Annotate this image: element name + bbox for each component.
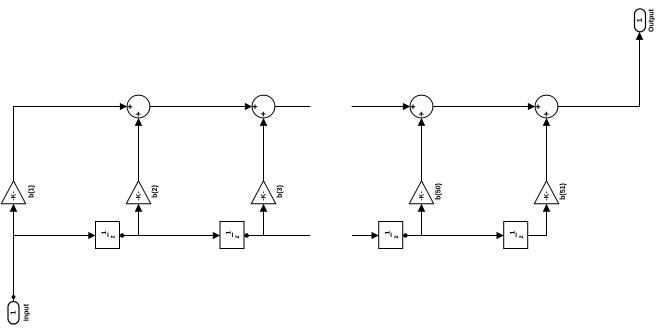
Unit Delay z2 box: [220, 222, 244, 249]
svg-text:1: 1: [11, 311, 18, 315]
Unit Delay z1 box: [96, 222, 120, 249]
wire: Sum4 right then up to Output: [558, 32, 643, 107]
Sum1 circle: [127, 95, 150, 118]
wire: cut start into Sum3: [352, 103, 411, 110]
wire: z4 output right then up to gain b(51): [528, 204, 551, 236]
svg-text:b(1): b(1): [29, 185, 36, 198]
svg-text:1: 1: [101, 230, 108, 234]
gain b(50) triangle: [409, 181, 433, 204]
Sum2 circle: [252, 95, 275, 118]
Input port block (oval "1"): [8, 302, 19, 325]
svg-text:-K-: -K-: [11, 191, 18, 200]
svg-text:-K-: -K-: [261, 191, 268, 200]
wire: b(61) output up into Sum4: [543, 118, 551, 181]
junction dot after z2: [245, 233, 249, 237]
junction dot after z3: [403, 233, 407, 237]
wire: z3 output to z4: [403, 232, 504, 239]
svg-text:-K-: -K-: [136, 191, 143, 200]
wire: branch up to gain b(2): [135, 204, 143, 236]
wire: z1 output to z2: [120, 232, 221, 239]
svg-text:1: 1: [509, 230, 516, 234]
svg-text:b(51): b(51): [560, 183, 567, 200]
gain b(3) triangle: [251, 181, 275, 204]
wire: z2 output to cut end: [244, 235, 310, 237]
wire: branch up to gain b(50): [418, 204, 426, 236]
svg-text:b(3): b(3): [277, 185, 284, 198]
wire: branch up to gain b(3): [260, 204, 268, 236]
svg-text:-K-: -K-: [544, 191, 551, 200]
wire: Sum1 to Sum2: [150, 103, 252, 110]
gain b(2) triangle: [126, 181, 150, 204]
junction dot after z1: [120, 233, 124, 237]
wire: Sum2 output to cut end: [275, 106, 311, 108]
svg-text:1: 1: [637, 18, 644, 22]
wire: branch right from input riser to Unit Delay z1: [14, 232, 96, 239]
wire: Sum3 to Sum4: [433, 103, 535, 110]
Unit Delay z3 box: [379, 222, 403, 249]
svg-text:1: 1: [226, 230, 233, 234]
wire: Input up to gain b(1): [10, 204, 18, 302]
wire: b(3) output up into Sum2: [260, 118, 268, 181]
wire: b(2) output up into Sum1: [135, 118, 143, 181]
port dot above Input: [12, 295, 16, 299]
wire: b(60) output up into Sum3: [418, 118, 426, 181]
svg-text:1: 1: [384, 230, 391, 234]
svg-text:Input: Input: [24, 303, 31, 321]
svg-text:b(2): b(2): [152, 185, 159, 198]
wire: cut start into Unit Delay z3: [352, 232, 379, 239]
svg-text:Output: Output: [649, 8, 656, 32]
svg-text:-K-: -K-: [419, 191, 426, 200]
gain b(1) triangle: [1, 181, 25, 204]
gain b(51) triangle: [534, 181, 558, 204]
Unit Delay z4 box: [504, 222, 528, 249]
svg-text:b(50): b(50): [435, 183, 442, 200]
Sum3 circle: [410, 95, 433, 118]
Output port block (oval "1"): [635, 9, 646, 32]
wire: b(1) output up and right into Sum1: [14, 103, 128, 181]
Sum4 circle: [535, 95, 558, 118]
